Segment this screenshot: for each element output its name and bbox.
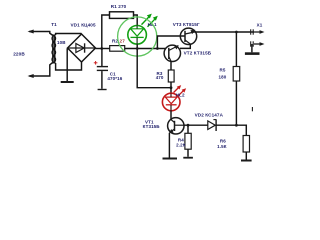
transformer T1 core	[52, 35, 54, 64]
ground under X1	[245, 52, 260, 55]
LED HL2	[162, 93, 180, 111]
wire VD2 to R6	[216, 125, 246, 135]
svg-text:10В: 10В	[57, 40, 66, 45]
plus sign of C1	[94, 61, 98, 65]
resistor R5	[233, 67, 240, 82]
junction dot R5 R6	[235, 124, 238, 127]
wire HL1 anode lead	[136, 25, 138, 29]
svg-text:220В: 220В	[13, 52, 25, 57]
transformer T1 primary winding	[52, 35, 56, 63]
transformer T1 secondary winding	[52, 35, 55, 63]
junction dot riser to VT3 base	[156, 47, 159, 50]
svg-text:R1 270: R1 270	[111, 4, 127, 9]
resistor R4	[185, 133, 191, 149]
svg-text:VT3 КТ815Г: VT3 КТ815Г	[173, 22, 200, 27]
wire + output of bridge	[96, 48, 110, 50]
mains plug arrow bottom	[28, 74, 34, 78]
wire riser to VT3 base	[157, 36, 185, 49]
wire R1 to HL1 anode	[134, 15, 138, 25]
svg-text:470: 470	[156, 75, 164, 80]
wire R3 to node	[170, 82, 172, 88]
wire secondary top to bridge	[56, 34, 82, 36]
ground under VT1	[163, 158, 178, 160]
transistor VT2	[164, 45, 180, 61]
transistor VT3	[180, 28, 196, 44]
wire up to R1	[102, 15, 110, 49]
ground under C1	[98, 89, 107, 90]
mains plug arrow top	[28, 30, 34, 34]
junction dot R5 on rail	[235, 31, 238, 34]
ground under R6	[241, 160, 252, 162]
svg-text:1.5К: 1.5К	[217, 144, 227, 149]
wire R5 down to VD2 node	[235, 81, 237, 125]
ground under R4	[183, 157, 193, 159]
wire bridge left vertex to ground	[66, 49, 68, 82]
resistor R1	[110, 12, 134, 19]
ground under bridge	[61, 81, 74, 83]
junction dot R4	[187, 124, 190, 127]
zener diode VD2	[208, 121, 216, 130]
wire R4 top	[187, 125, 189, 133]
wire X1 contact2 to ground	[251, 44, 253, 52]
wire secondary bottom to bridge bottom	[56, 62, 82, 70]
LED HL1	[128, 26, 147, 45]
HL2 emission arrows	[174, 88, 184, 96]
svg-text:R5: R5	[220, 67, 226, 72]
node junction above C1	[100, 47, 103, 50]
top rail from VT3 emitter to X1	[195, 31, 255, 33]
connector X1 contact 2	[251, 41, 260, 46]
annotation circle around HL1	[118, 17, 157, 56]
wire VT3 collector to VT2 emitter	[180, 44, 190, 49]
wire R2 to VT2 base	[125, 48, 166, 50]
svg-text:180: 180	[219, 75, 227, 80]
wire R6 to ground	[245, 152, 247, 160]
wire VT2 collector to R3	[170, 61, 172, 70]
svg-text:КТ315Б: КТ315Б	[143, 124, 161, 129]
junction dot HL1 cathode on base wire	[136, 47, 139, 50]
wire HL2 anode lead	[170, 93, 172, 97]
wire HL2 cathode lead	[170, 105, 172, 111]
wire HL1 cathode lead	[136, 37, 138, 44]
svg-text:470*16: 470*16	[107, 76, 122, 81]
svg-text:R6: R6	[220, 138, 226, 143]
svg-text:T1: T1	[51, 22, 57, 27]
diode inside VD1	[68, 47, 96, 49]
resistor R3	[168, 70, 174, 82]
stray wire stub	[251, 107, 253, 111]
wire R4 to ground	[187, 149, 189, 157]
svg-text:VD1 КЦ405: VD1 КЦ405	[71, 22, 96, 27]
resistor R2	[110, 46, 125, 52]
resistor R6	[243, 136, 249, 153]
svg-text:X1: X1	[257, 22, 263, 27]
HL1 emission arrows	[142, 17, 155, 27]
wire HL1 cathode down branch	[137, 44, 171, 87]
connector X1 contact 1	[251, 29, 260, 34]
wire mains top lead	[30, 32, 52, 35]
wire VT1 base to VD2	[184, 124, 208, 126]
svg-text:VD2 КС147А: VD2 КС147А	[195, 113, 224, 118]
svg-text:VT2 КТ315Б: VT2 КТ315Б	[184, 51, 212, 56]
transistor VT1	[168, 118, 184, 134]
capacitor C1	[97, 66, 108, 67]
svg-text:2.2К: 2.2К	[176, 142, 186, 147]
bridge rectifier VD1 diamond	[68, 34, 96, 62]
wire node to HL2	[170, 88, 172, 94]
junction dot R3 HL2	[170, 86, 173, 89]
wire VT1 emitter to ground	[168, 133, 170, 158]
wire HL2 to VT1 collector	[170, 111, 172, 120]
wire mains bottom lead	[30, 63, 52, 76]
wire rail to R5	[235, 32, 237, 67]
wire C1 branch	[101, 49, 103, 67]
svg-text:HL2: HL2	[176, 92, 185, 97]
